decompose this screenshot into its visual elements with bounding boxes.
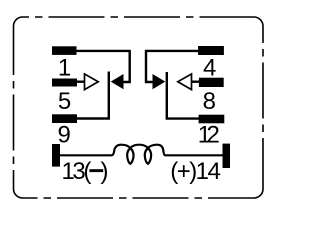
svg-text:9: 9: [58, 122, 71, 149]
svg-text:4: 4: [203, 55, 216, 82]
svg-text:1: 1: [58, 55, 71, 82]
svg-text:12: 12: [198, 122, 220, 149]
svg-text:8: 8: [203, 88, 216, 115]
svg-text:(+)14: (+)14: [170, 158, 221, 185]
svg-text:5: 5: [58, 88, 71, 115]
